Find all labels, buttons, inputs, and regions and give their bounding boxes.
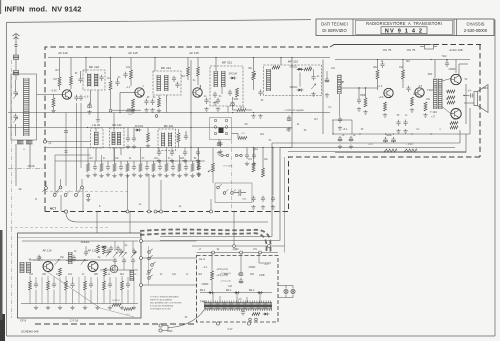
connector on border x149 [148,210,151,213]
FM trimmer x124 [122,252,126,257]
connector circle c [259,251,262,254]
row capacitor x121 [119,164,123,170]
svg-text:P.T. 500k: P.T. 500k [224,166,234,168]
svg-text:30: 30 [147,97,150,99]
diode SFB104 [103,246,106,249]
cap C14 [380,62,384,68]
connector circle b [240,251,243,254]
horizontal resistor R8 [237,109,246,112]
FM resistor x104 [103,281,106,290]
power switch circle [249,318,252,321]
FM tuner box [18,233,142,318]
FM resistor x122 [121,281,124,290]
CF16 dash-dot line [8,168,46,170]
FM capacitor x110 [108,282,112,288]
svg-text:50: 50 [185,317,188,319]
row capacitor x134 [132,164,136,170]
capacitor C2 antenna [13,71,18,75]
wire MF221 sec down [166,102,168,113]
junction [377,59,378,60]
svg-text:50: 50 [194,158,197,160]
AM section dashed border top-right [425,45,481,158]
junction [411,133,412,134]
MF322 trim [311,84,315,89]
svg-text:470: 470 [146,274,151,276]
res R7b [197,67,200,76]
MF221 primary coil [157,75,161,91]
return wire 1 [160,130,460,237]
MF322 coil [267,69,271,91]
junction [215,57,216,58]
svg-text:AF 115: AF 115 [128,51,138,55]
coupling coil L2a [17,141,24,145]
svg-text:–1.3: –1.3 [368,143,373,146]
MF321 coil a [214,71,218,87]
output coupling [465,84,467,124]
wire x66 down [66,213,268,222]
FM cap interstage [72,255,76,261]
switch core [219,128,224,134]
electrolytic C18 [338,136,342,142]
row resistor x153.5 [152,164,155,172]
MF322 cap 1 [311,74,315,80]
svg-text:–1.4: –1.4 [126,86,131,89]
svg-text:125MF: 125MF [201,284,209,286]
electrolytic right of box [325,77,329,83]
switch S1c [81,186,84,189]
AGC pot [252,71,255,80]
LE20 coil a [94,132,98,145]
svg-text:INFIN mod. NV 9142: INFIN mod. NV 9142 [5,5,82,14]
LE20 down wires [95,148,97,161]
svg-text:5MF: 5MF [428,74,433,76]
band switch strip contact 3 [151,264,154,267]
scan edge artifact left [0,236,2,341]
ferrite rod coil L1 [24,78,30,136]
svg-text:47k: 47k [253,249,258,251]
emitter res Q5 [424,102,427,111]
row bus drop 5 [166,148,168,162]
svg-text:1200: 1200 [242,199,247,201]
FM trimmer x115 [113,252,117,257]
band switch strip wire [148,246,150,285]
title block divider 1 [352,19,354,36]
wire y155 to LE20 [55,154,91,156]
row capacitor x199 [197,164,201,170]
capacitor C5 [78,77,82,83]
resistor R5 [130,70,133,79]
MF322 wire mid [313,69,315,74]
svg-text:+ 0.26 con segnale: + 0.26 con segnale [284,110,304,112]
row resistor x114.5 [113,164,116,172]
FM base bus [29,259,115,261]
cap C17 [403,120,407,126]
row bus drop 4 [114,148,116,162]
row bus drop 6 [101,155,103,161]
junction [402,59,403,60]
FM trimmer x133 [131,252,135,257]
electrolytic C10 [231,100,235,106]
mains plug [159,324,162,327]
svg-text:39k: 39k [373,67,378,69]
transistor Q4 OC75 driver [384,88,393,97]
svg-text:0.1: 0.1 [416,129,420,131]
svg-text:10: 10 [446,91,449,93]
FM res under Q8 [59,268,62,276]
switch S1b [59,186,62,189]
res horizontal top [272,66,280,69]
svg-text:1k: 1k [129,158,132,160]
top supply bus audio [335,59,470,61]
svg-text:1n: 1n [186,274,189,276]
wire x292 vertical [291,58,293,148]
ribbon cable shielded a [140,230,271,252]
MF321 res [236,88,239,97]
svg-text:2-530-00000: 2-530-00000 [464,28,488,33]
row bus drop 2 [140,148,142,162]
wire T142 to Q7 base [442,107,451,114]
junction [272,147,273,148]
svg-text:6p: 6p [98,257,101,259]
gap vertical x83 [82,189,84,212]
svg-text:TUTTE LE TENSIONI MISURATE: TUTTE LE TENSIONI MISURATE [150,296,179,299]
row resistor x127.5 [126,164,129,172]
junction [291,57,292,58]
contact pair a [221,154,223,156]
cap output [445,61,449,67]
svg-text:2n: 2n [317,76,320,78]
wire MF321 top [215,58,217,72]
MF122 cap [99,75,103,81]
switch contact b1 [214,126,217,129]
svg-text:10k: 10k [68,274,73,276]
junction [253,147,254,148]
svg-text:8k2: 8k2 [406,61,410,63]
svg-text:4k7: 4k7 [314,119,318,121]
switch S1f [75,194,78,197]
svg-text:RISPETTO ALLA MASSA: RISPETTO ALLA MASSA [150,299,172,302]
emitter resistor R3 [52,98,55,107]
coupling coil L2b [26,141,33,145]
antenna [13,34,20,45]
transistor Q9 AF115 FM mixer [88,262,98,272]
FM input coil [20,262,24,273]
svg-text:5n: 5n [142,158,145,160]
svg-text:125p: 125p [297,69,303,71]
IF transformer MF122 box [83,70,105,90]
mid bus y127 [8,127,292,129]
power ecap 2 [239,278,243,284]
svg-text:1k: 1k [381,61,384,63]
FM right edge connector 1 [140,240,143,243]
svg-text:6k8: 6k8 [180,158,184,160]
svg-text:SFD104: SFD104 [135,126,144,128]
wire ferrite down left [15,144,17,186]
junction [190,147,191,148]
FM dial diagonal 2 [100,308,134,317]
junction [430,133,431,134]
MF222 coil a [162,133,165,147]
wire x323 vertical [322,60,324,135]
res R10 [364,98,367,107]
diode SD-1 c [259,291,262,294]
FM ground x36 [34,306,38,310]
driver transformer T142 secondary [439,79,443,110]
band switch strip contact 4 [148,270,151,273]
switch S1d [53,194,56,197]
mid cap2 x159 [157,150,161,156]
svg-text:o: o [23,149,25,151]
switch contact a1 [214,119,217,122]
svg-text:5n: 5n [118,77,121,79]
svg-text:2n: 2n [82,274,85,276]
svg-text:1n: 1n [108,274,111,276]
vertical wire x191 [190,60,192,148]
diode SD-1 b [236,291,239,294]
svg-text:5MF: 5MF [234,99,239,101]
svg-text:MF 322: MF 322 [288,60,299,64]
svg-text:SD-1: SD-1 [200,289,206,292]
wire vol to audio [332,119,352,121]
wire MF122 top [85,58,87,74]
wire Q3 collector [200,85,202,89]
wire x333 up [332,120,334,134]
row bus drop 1 [87,148,89,162]
connector on left border [43,140,46,143]
electrolytic mid x219 [217,140,221,146]
title block divider 2 double [453,19,455,36]
wire MF221 down [158,95,160,98]
svg-text:+1.6: +1.6 [378,85,383,88]
outer border bottom [7,335,496,337]
wire FM conn A [143,240,197,242]
svg-text:AF 114: AF 114 [42,249,51,253]
capacitor C8 [123,72,127,78]
svg-text:125: 125 [228,286,233,288]
svg-text:2n: 2n [212,274,215,276]
svg-text:DATI TECNICI: DATI TECNICI [321,22,348,27]
svg-text:CF16: CF16 [28,164,35,168]
switch S2c [231,192,234,195]
electrolytic C20 [384,137,388,143]
AGC bus [8,112,330,114]
MF321 coil b [222,71,226,87]
svg-text:50: 50 [304,130,307,132]
FM ground x110 [108,306,112,310]
ground Q1 emitter [51,109,55,113]
IF transformer MF222 box [158,129,176,151]
svg-text:1: 1 [439,129,441,131]
rectifier wire [200,292,272,294]
svg-text:220V: 220V [167,331,173,333]
switch contact c1 [214,132,217,135]
return wire 2 [160,148,455,241]
diode SFD104 [232,77,235,80]
ground MF122 [87,110,91,114]
power terminal circle 2 [247,322,250,325]
junction [446,59,447,60]
wire T142 to Q6 base [442,79,451,82]
horizontal resistor R6 [127,109,135,112]
svg-text:6.3V: 6.3V [228,329,233,331]
svg-text:100: 100 [53,79,58,81]
svg-text:+17: +17 [431,116,436,119]
bottom dashed line [35,323,196,325]
svg-text:FI: FI [35,199,37,201]
MF122 primary coil [88,74,91,87]
outer border right [494,20,496,337]
MF222 coil b [169,133,172,147]
diode SFD104 second [137,129,140,132]
svg-text:MF 121: MF 121 [112,123,122,127]
svg-text:+6: +6 [342,135,345,137]
wire x470 [469,108,471,134]
FM variable cap 1 [55,259,59,264]
resistor R2 [70,76,73,85]
svg-text:5n: 5n [219,96,222,98]
cap C15 [406,86,410,92]
junction [190,112,191,113]
AM section dashed border top-right solid part [330,45,425,48]
switch contact a2 [225,119,228,122]
band switch strip contact 1 [148,251,151,254]
row resistor x140.5 [139,164,142,172]
row capacitor x173 [171,164,175,170]
tuning gang arrow 2 [13,117,17,122]
svg-text:L3: L3 [74,251,77,253]
vert res x253 [252,163,255,172]
svg-text:9p: 9p [217,249,220,251]
svg-text:OC 75: OC 75 [407,48,416,52]
svg-text:9V: 9V [465,79,468,81]
row bus drop 7 [179,155,181,161]
svg-text:–4.1: –4.1 [203,266,208,269]
svg-text:60: 60 [75,73,78,75]
connector on border x161 [160,210,163,213]
junction [119,112,120,113]
svg-text:12MF: 12MF [259,275,265,277]
junction [232,112,233,113]
audio box bottom line [335,134,466,153]
junction [385,133,386,134]
res between outputs 1 [447,90,455,93]
svg-text:680: 680 [94,274,99,276]
wire MF321 down b [227,106,229,113]
return wire 4 down [284,157,286,253]
FM wire x97.5 [97,277,99,304]
wire MF122 down2 [97,90,99,118]
FM trimmer 3 [132,251,136,256]
svg-text:1M: 1M [244,124,247,126]
junction [85,57,86,58]
FM capacitor x72.5 [70,282,74,288]
volume pot coil [338,75,342,94]
connector y246 a [233,245,236,248]
connector y246 b [268,245,271,248]
junction [280,57,281,58]
FM resistor x85 [84,281,87,290]
mains transformer T440 [204,303,272,310]
junction [253,57,254,58]
svg-text:100: 100 [426,99,431,101]
svg-text:L E 20: L E 20 [92,123,101,127]
svg-text:1n: 1n [134,274,137,276]
oscillator coil LE20 box [91,128,104,148]
FM q9 collector parts [84,250,88,256]
AM section dashed border top-left [45,47,330,212]
switch feeds [45,181,47,187]
switch S2b [223,192,226,195]
wire output top [458,64,460,76]
wire ferrite to tuning [15,80,17,90]
row resistor x101.5 [100,164,103,172]
svg-text:2xAC 128: 2xAC 128 [449,48,463,52]
ground cluster MF322 [251,114,255,118]
FM top bus [22,240,138,242]
power supply dashed box [197,256,279,323]
svg-text:5n: 5n [153,97,156,99]
IF transformer MF322 box [264,65,322,96]
junction [393,133,394,134]
connector on border x211 [210,210,213,213]
svg-text:+1.7: +1.7 [126,314,131,316]
svg-text:L7: L7 [199,249,202,251]
title block inner frame middle cell [356,20,453,34]
connector on border x155 [154,210,157,213]
wire MF321 down a [221,87,223,94]
vert res x263 [262,168,265,177]
wire MF322 top [280,58,282,66]
svg-text:+0.9 (+0.4): +0.9 (+0.4) [220,281,231,283]
svg-text:8k2: 8k2 [120,274,124,276]
switch S1g [87,194,90,197]
power top wire [197,252,279,254]
svg-text:4k7: 4k7 [55,70,59,72]
svg-text:SFD104: SFD104 [229,73,238,76]
svg-text:+0.9 (+0.4): +0.9 (+0.4) [216,275,227,277]
FM res under Q9 [104,268,107,276]
power ecap 1 [239,270,243,276]
transistor Q1 AF116 converter [62,90,71,99]
row capacitor x160 [158,164,162,170]
gap vertical x97 [96,212,98,234]
inline cap x66 a [64,131,68,133]
vertical wire x55 [54,155,56,194]
power terminal circle 1 [216,322,219,325]
vertical wire x66 [65,113,67,187]
res between outputs 2 [447,96,455,99]
svg-text:8-: 8- [99,206,101,208]
wire lamp feed [258,253,260,264]
IF transformer MF321 box [210,66,243,106]
svg-text:AF 115: AF 115 [87,249,96,253]
MF121 coil a [112,132,115,145]
row resistor x88 [87,164,90,172]
switch row 1 dashed wire [45,191,128,193]
FM ground x48 [46,306,50,310]
res bottom audio 1 [384,149,397,152]
switch S1a [45,187,48,190]
Q3 emitter parts [204,98,208,104]
svg-text:DI SEGNALE (V. NOTE): DI SEGNALE (V. NOTE) [150,308,171,311]
FM trimmer 2 [119,251,123,256]
tuning gang arrow 1 [13,93,17,98]
svg-text:+1.3: +1.3 [240,107,245,109]
MF221 cap [172,76,176,82]
svg-text:5n: 5n [269,140,272,142]
svg-text:10n: 10n [264,159,269,161]
vertical drop x149 [148,174,150,210]
